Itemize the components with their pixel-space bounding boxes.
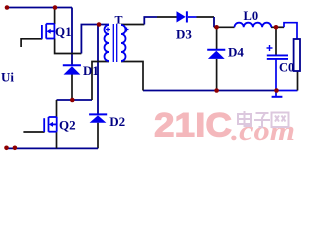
wire secondary top lead bbox=[121, 24, 144, 26]
wire step up to D3 bbox=[144, 17, 157, 25]
node D4 bottom junction bbox=[214, 88, 219, 93]
svg-text:D1: D1 bbox=[83, 63, 99, 78]
wire to step down bbox=[197, 16, 215, 18]
wire Q1 drain lead bbox=[54, 8, 56, 25]
wire primary bottom lead bbox=[92, 62, 109, 101]
svg-text:L0: L0 bbox=[244, 9, 259, 23]
svg-text:C0: C0 bbox=[279, 61, 294, 75]
watermark dianziwang glyph wang bbox=[272, 113, 289, 128]
diode D2 bbox=[89, 114, 107, 122]
svg-text:D2: D2 bbox=[109, 114, 125, 129]
wire Q2 gate lead bbox=[23, 131, 44, 133]
transformer polarity mark right bbox=[125, 28, 129, 32]
wire Q1 gate lead bbox=[21, 39, 42, 47]
wire output bottom rail bbox=[143, 90, 277, 92]
transistor Q1 bbox=[42, 24, 55, 39]
wire rail down to D1 node bbox=[71, 8, 73, 66]
watermark dianziwang glyph zi bbox=[254, 113, 270, 127]
capacitor C0 plus sign bbox=[267, 45, 273, 51]
capacitor C0 bbox=[267, 55, 288, 59]
wire D1 anode lead bbox=[71, 75, 73, 101]
wire C0 bottom lead to ground bbox=[275, 59, 277, 97]
wire bottom input rail bbox=[5, 147, 98, 149]
wire step up to load top bbox=[284, 23, 297, 39]
node B D1 junction bbox=[70, 98, 75, 103]
load resistor bbox=[294, 39, 300, 71]
transistor Q2 bbox=[44, 117, 57, 132]
ground bbox=[272, 96, 283, 98]
wire node up to primary top bbox=[81, 25, 99, 54]
wire L0 left lead bbox=[214, 26, 235, 28]
node input minus terminal bbox=[4, 146, 9, 151]
wire D4 anode lead bbox=[216, 59, 218, 91]
diode D4 bbox=[207, 50, 225, 59]
transformer T primary winding bbox=[105, 25, 109, 61]
wire secondary bottom lead bbox=[121, 62, 143, 91]
wire D3 cathode out bbox=[188, 16, 197, 18]
diode D3 bbox=[177, 11, 187, 22]
node input plus terminal bbox=[5, 5, 10, 10]
transformer polarity mark left bbox=[106, 28, 110, 32]
wire Q2 source lead bbox=[56, 132, 58, 149]
wire top input rail bbox=[7, 7, 72, 9]
node C0 top junction bbox=[274, 25, 279, 30]
wire node B horizontal bbox=[57, 99, 93, 101]
svg-text:Q1: Q1 bbox=[55, 24, 72, 39]
wire node A down to D2 cathode bbox=[97, 25, 99, 116]
transformer T core bbox=[113, 24, 116, 62]
svg-text:Ui: Ui bbox=[1, 70, 14, 85]
wire into D3 anode bbox=[157, 16, 177, 18]
svg-text:Q2: Q2 bbox=[59, 118, 76, 133]
watermark dianziwang glyph dian bbox=[238, 111, 252, 126]
wire L0 right lead bbox=[271, 26, 284, 28]
wire load bottom lead bbox=[297, 71, 299, 91]
svg-text:T: T bbox=[115, 13, 123, 27]
wire step down to L0 line bbox=[213, 17, 215, 27]
wire C0 top lead bbox=[275, 27, 277, 55]
node A primary top junction bbox=[97, 22, 102, 27]
svg-text:D4: D4 bbox=[228, 45, 244, 60]
node C0 bottom junction bbox=[274, 88, 279, 93]
diode D1 bbox=[63, 65, 81, 74]
svg-text:21IC: 21IC bbox=[154, 107, 232, 145]
wire Q2 drain lead bbox=[56, 100, 58, 117]
node input minus junction bbox=[13, 146, 18, 151]
wire rail to load bottom bbox=[277, 90, 298, 92]
node Q1 drain junction bbox=[53, 5, 58, 10]
wire Q1 source to node bbox=[55, 39, 82, 54]
wire D2 anode lead bbox=[97, 123, 99, 149]
wire D4 cathode lead bbox=[216, 27, 218, 50]
inductor L0 bbox=[235, 23, 272, 28]
node D4 top junction bbox=[214, 25, 219, 30]
svg-text:D3: D3 bbox=[176, 27, 192, 42]
transformer T secondary winding bbox=[121, 25, 126, 61]
wire primary top lead bbox=[99, 24, 109, 26]
